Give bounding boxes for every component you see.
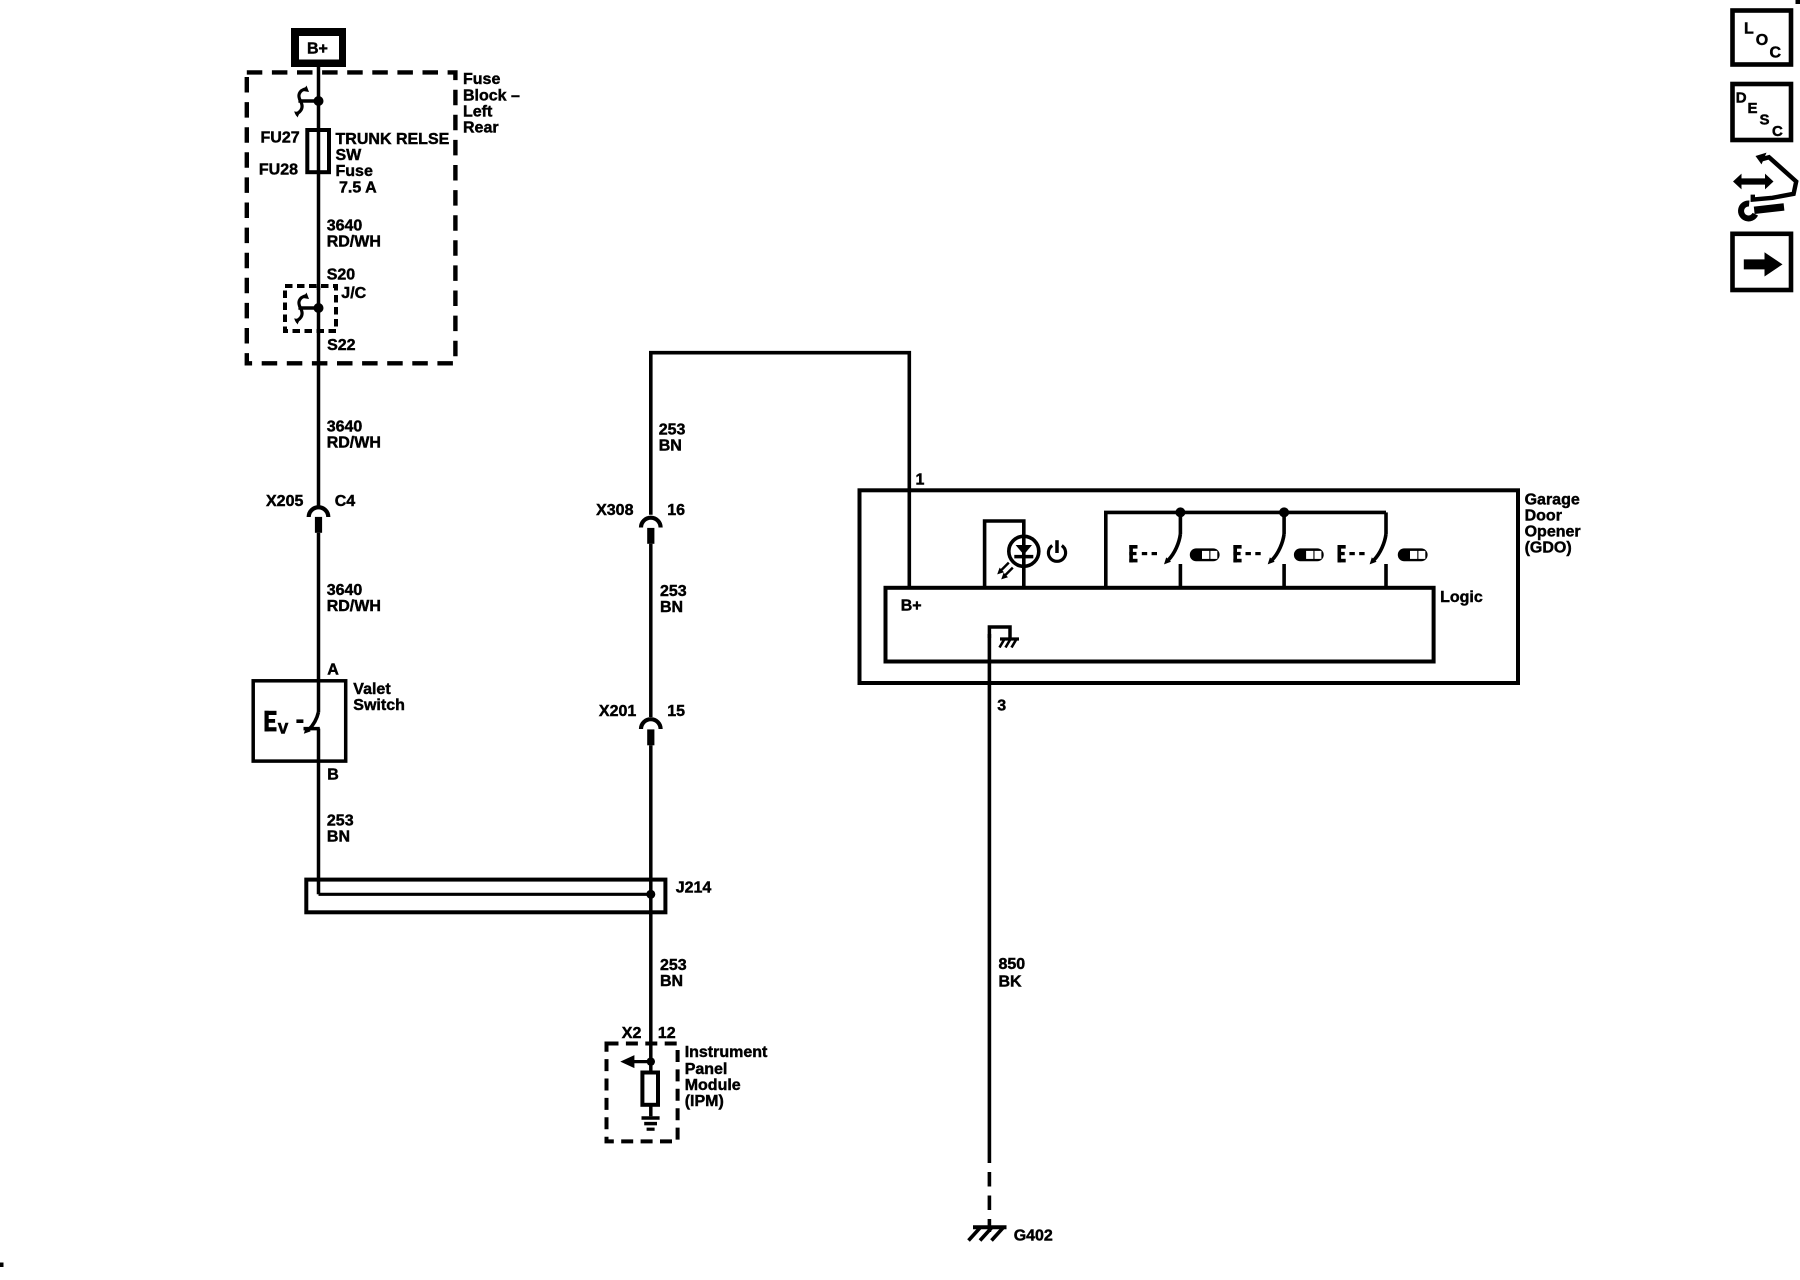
svg-text:X2: X2 [622, 1025, 642, 1042]
svg-text:16: 16 [667, 502, 685, 519]
switch bus wire [1106, 512, 1386, 587]
svg-text:FU28: FU28 [259, 161, 298, 178]
fuse block dashed box [247, 72, 456, 363]
svg-text:TRUNK RELSE: TRUNK RELSE [336, 131, 450, 148]
wire X201 to IPM [649, 745, 653, 1061]
svg-text:S22: S22 [327, 337, 356, 354]
valet switch box [253, 681, 346, 761]
svg-text:Instrument: Instrument [685, 1044, 768, 1061]
DESC nav box [1733, 84, 1792, 140]
svg-text:B: B [327, 767, 339, 784]
wire label 3640 RD/WH [327, 419, 381, 452]
page edge mark bottom left [0, 1263, 4, 1268]
svg-text:253: 253 [327, 813, 354, 830]
svg-text:BN: BN [660, 973, 683, 990]
wire top run to GDO pin 1 [651, 353, 910, 588]
svg-text:Left: Left [463, 103, 493, 120]
svg-text:S: S [1760, 112, 1770, 129]
svg-text:12: 12 [658, 1025, 676, 1042]
wire label 253 BN [659, 422, 686, 455]
svg-text:Rear: Rear [463, 119, 499, 136]
wire label 3640 RD/WH [327, 218, 381, 251]
svg-text:S20: S20 [327, 266, 356, 283]
svg-text:3640: 3640 [327, 218, 363, 235]
svg-text:v: v [278, 718, 289, 739]
fuse value label [336, 131, 450, 197]
svg-text:BN: BN [327, 828, 350, 845]
svg-text:C: C [1772, 123, 1783, 140]
splice J214 box [306, 880, 665, 913]
svg-text:1: 1 [916, 472, 925, 489]
switch SW3 E label [1338, 545, 1365, 562]
svg-text:3640: 3640 [327, 582, 363, 599]
junction J/C dashed box [285, 286, 336, 331]
GDO label [1525, 492, 1581, 557]
svg-text:Block –: Block – [463, 87, 520, 104]
svg-text:O: O [1756, 32, 1768, 49]
svg-text:3: 3 [997, 697, 1006, 714]
svg-text:253: 253 [659, 422, 686, 439]
svg-text:7.5 A: 7.5 A [339, 180, 377, 197]
svg-text:253: 253 [660, 583, 687, 600]
svg-text:(IPM): (IPM) [685, 1093, 724, 1110]
connector X201 [641, 719, 661, 745]
svg-text:B+: B+ [307, 41, 328, 58]
svg-text:Module: Module [685, 1077, 741, 1094]
wire B+ to fuse [317, 67, 321, 132]
ground symbol in IPM [642, 1118, 660, 1129]
valet switch contacts [265, 711, 320, 739]
remote button icon 3 [1398, 548, 1428, 561]
svg-text:C4: C4 [335, 493, 356, 510]
wire valet switch to J214 [317, 729, 321, 895]
wire label 253 BN [327, 813, 354, 846]
wire LED to logic [1022, 566, 1026, 588]
svg-text:BN: BN [659, 438, 682, 455]
svg-text:J214: J214 [676, 880, 712, 897]
svg-text:RD/WH: RD/WH [327, 598, 381, 615]
power button icon [1048, 540, 1065, 561]
svg-text:BN: BN [660, 599, 683, 616]
splice clip junction at top of fuse block [294, 86, 324, 118]
wire S22 to X205 [317, 331, 321, 507]
svg-text:BK: BK [999, 974, 1023, 991]
connector X205 C4 [309, 507, 329, 533]
svg-text:850: 850 [999, 956, 1026, 973]
pushbutton switch SW1 [1164, 512, 1180, 587]
valet switch label [353, 681, 405, 714]
svg-text:Opener: Opener [1525, 524, 1581, 541]
svg-text:E: E [1748, 100, 1758, 117]
svg-text:Logic: Logic [1440, 589, 1483, 606]
wire label 253 BN [660, 957, 687, 990]
junction dot bus 1 [1175, 507, 1185, 517]
LED indicator D1 [1009, 536, 1039, 566]
connector X308 [641, 518, 661, 544]
wire fuse to S20 [317, 172, 321, 290]
svg-text:C: C [1770, 45, 1782, 62]
LED emission arrows [997, 563, 1013, 580]
fuse FU27/FU28 TRUNK RELSE SW 7.5A [307, 130, 329, 172]
svg-text:G402: G402 [1014, 1228, 1053, 1245]
LOC nav box [1733, 11, 1792, 65]
wire GDO pin 3 to ground [988, 634, 992, 1163]
resistor in IPM [642, 1062, 658, 1117]
wire X205 to valet switch [317, 533, 321, 712]
svg-text:Door: Door [1525, 508, 1562, 525]
fuse block label [463, 71, 520, 136]
svg-text:FU27: FU27 [261, 129, 300, 146]
svg-text:Panel: Panel [685, 1061, 728, 1078]
wire label 3640 RD/WH [327, 582, 381, 615]
signal arrow in IPM [620, 1055, 651, 1068]
splice J214 bus wire [319, 893, 651, 896]
svg-text:X205: X205 [266, 493, 303, 510]
svg-text:SW: SW [336, 147, 363, 164]
ground G402 symbol [969, 1227, 1007, 1240]
svg-text:A: A [327, 662, 339, 679]
svg-text:B+: B+ [901, 598, 922, 615]
remote button icon 2 [1294, 548, 1324, 561]
wire label 850 BK [999, 956, 1026, 991]
switch SW1 E label [1129, 545, 1157, 562]
svg-text:Valet: Valet [353, 681, 391, 698]
svg-text:Fuse: Fuse [336, 163, 373, 180]
svg-text:D: D [1736, 90, 1747, 107]
svg-text:Fuse: Fuse [463, 71, 500, 88]
svg-text:(GDO): (GDO) [1525, 540, 1572, 557]
remote button icon 1 [1190, 548, 1220, 561]
switch SW2 E label [1233, 545, 1260, 562]
svg-text:3640: 3640 [327, 419, 363, 436]
svg-text:J/C: J/C [341, 285, 366, 302]
garage door opener GDO box [860, 490, 1519, 683]
junction dot J214 [646, 890, 655, 899]
instrument panel module dashed box [607, 1044, 678, 1142]
svg-text:RD/WH: RD/WH [327, 435, 381, 452]
svg-text:253: 253 [660, 957, 687, 974]
LED branch wire [985, 521, 1024, 588]
svg-text:15: 15 [667, 703, 685, 720]
wire label 253 BN [660, 583, 687, 616]
wire X308 to X201 [649, 544, 653, 717]
svg-text:X201: X201 [599, 703, 636, 720]
IPM label [685, 1044, 768, 1110]
logic module box [886, 588, 1434, 662]
svg-text:RD/WH: RD/WH [327, 234, 381, 251]
diagnostic arrows and wrench icon [1733, 153, 1796, 219]
junction dot in IPM [647, 1057, 655, 1065]
page edge mark top right [1796, 0, 1800, 4]
chassis ground hook in logic box [989, 627, 1019, 648]
pushbutton switch SW3 [1370, 512, 1386, 587]
pushbutton switch SW2 [1268, 512, 1284, 587]
next page arrow box [1733, 234, 1792, 290]
dashed wire to G402 [988, 1172, 992, 1232]
junction dot bus 2 [1279, 507, 1289, 517]
svg-text:L: L [1744, 21, 1754, 38]
battery feed B+ symbol [291, 28, 346, 67]
svg-text:Garage: Garage [1525, 492, 1580, 509]
svg-text:Switch: Switch [353, 697, 405, 714]
svg-text:X308: X308 [596, 502, 633, 519]
splice clip junction S20/S22 [294, 286, 324, 331]
